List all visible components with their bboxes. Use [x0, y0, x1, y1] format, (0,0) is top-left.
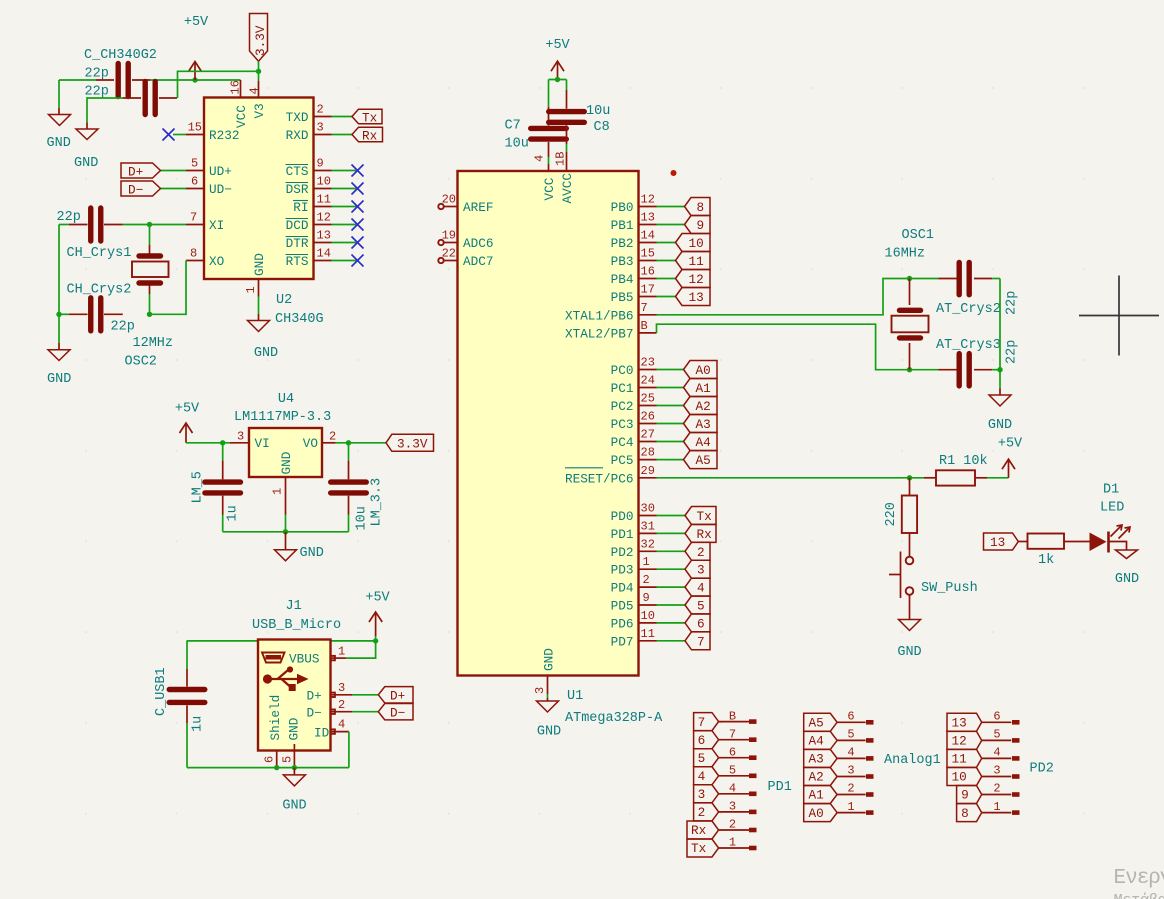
svg-text:PD1: PD1 [611, 527, 634, 542]
global label 3 PD1 [694, 785, 719, 803]
svg-text:11: 11 [689, 254, 704, 269]
svg-text:RI: RI [293, 200, 308, 215]
svg-text:Tx: Tx [362, 111, 378, 126]
power label 3.3V (vertical) [250, 14, 269, 75]
icon USB trident [263, 666, 309, 691]
junction gnd left [56, 312, 61, 317]
pin 7 XTAL1/PB6 [565, 301, 657, 324]
pin 29 RESET/PC6 [565, 464, 657, 487]
global label 4 PD4 [685, 578, 710, 596]
svg-text:4: 4 [338, 718, 345, 732]
pin 25 PC2 [611, 392, 684, 415]
diode D1 LED [1090, 532, 1127, 553]
svg-text:23: 23 [641, 356, 655, 370]
svg-text:13: 13 [990, 535, 1005, 550]
global label 4 PD1 [694, 767, 719, 785]
svg-text:C8: C8 [594, 120, 610, 135]
junction U4 gnd [283, 529, 288, 534]
pin 32 PD2 [611, 537, 685, 560]
svg-text:Tx: Tx [697, 509, 713, 524]
global label Rx PD1 [685, 524, 716, 542]
wire J1 gnd rail [187, 767, 349, 769]
svg-text:6: 6 [729, 745, 736, 759]
global label A3 [684, 415, 718, 433]
global label A0 [684, 361, 718, 379]
svg-text:5: 5 [993, 728, 1000, 742]
svg-text:9: 9 [317, 157, 324, 171]
global label 5 PD1 [694, 749, 719, 767]
capacitor LM_5 1u [205, 443, 241, 532]
pin 12 DCD nc [314, 211, 364, 231]
svg-text:PD4: PD4 [611, 581, 634, 596]
pin 7 PD1 [719, 727, 757, 742]
svg-text:DTR: DTR [286, 236, 309, 251]
pin 1 PD1 [719, 836, 757, 851]
svg-text:16: 16 [229, 80, 243, 94]
svg-text:VCC: VCC [542, 177, 557, 200]
svg-text:PC5: PC5 [611, 453, 634, 468]
svg-text:19: 19 [442, 229, 456, 243]
svg-text:PD3: PD3 [611, 563, 634, 578]
svg-text:PB4: PB4 [611, 272, 634, 287]
svg-text:VCC: VCC [234, 105, 249, 128]
svg-text:VI: VI [255, 436, 270, 451]
svg-text:2: 2 [847, 782, 854, 796]
svg-text:+5V: +5V [365, 591, 390, 606]
pin 3 VI [230, 430, 249, 444]
global label A5 [684, 451, 718, 469]
svg-text:20: 20 [442, 193, 456, 207]
svg-text:GND: GND [254, 346, 278, 361]
pin 5 GND J1 [281, 744, 295, 768]
capacitor C_USB1 1u [169, 641, 205, 768]
svg-text:PC4: PC4 [611, 435, 634, 450]
svg-text:2: 2 [338, 698, 345, 712]
pin 2 PD4 [611, 573, 685, 596]
pin name RI overline [293, 200, 309, 215]
svg-text:Analog1: Analog1 [884, 753, 941, 768]
global label 12 PD2 [947, 731, 982, 749]
svg-text:22p: 22p [1005, 291, 1020, 315]
svg-text:AT_Crys2: AT_Crys2 [936, 302, 1001, 317]
svg-text:6: 6 [697, 616, 705, 631]
svg-text:12: 12 [317, 211, 331, 225]
svg-text:14: 14 [317, 247, 331, 261]
svg-text:2: 2 [317, 103, 324, 117]
svg-text:6: 6 [993, 710, 1000, 724]
pin 3 Analog1 [837, 764, 873, 779]
svg-text:PB2: PB2 [611, 236, 634, 251]
svg-text:1: 1 [244, 286, 258, 293]
svg-text:8: 8 [697, 200, 705, 215]
capacitor CH_Crys1 22p [59, 208, 123, 241]
junction crystal bottom [907, 367, 912, 372]
svg-text:9: 9 [697, 218, 705, 233]
global label 9 PD2 [957, 786, 982, 804]
switch SW_Push [889, 552, 913, 599]
svg-text:15: 15 [641, 247, 655, 261]
svg-text:22p: 22p [85, 67, 109, 82]
svg-text:Μετάβαση στις ρυθμίσεις: Μετάβαση στις ρυθμίσεις [1114, 892, 1164, 899]
svg-text:9: 9 [961, 788, 969, 803]
pin 13 DTR nc [314, 229, 364, 249]
svg-text:28: 28 [641, 446, 655, 460]
junction gnd J1 [292, 765, 297, 770]
global label Rx PD1 [687, 821, 719, 839]
svg-text:Shield: Shield [268, 695, 283, 741]
svg-text:A0: A0 [809, 806, 824, 821]
crystal 12MHz OSC2 [132, 225, 169, 315]
svg-text:A2: A2 [696, 399, 711, 414]
pin 2 Analog1 [837, 782, 873, 797]
global label 8 [685, 198, 711, 216]
pin 6 Analog1 [837, 710, 873, 725]
svg-text:PD1: PD1 [768, 780, 792, 795]
svg-text:AREF: AREF [463, 200, 493, 215]
svg-text:+5V: +5V [545, 38, 570, 53]
svg-text:16MHz: 16MHz [885, 247, 926, 262]
junction crystal right [997, 367, 1002, 372]
resistor 220 vertical [902, 478, 917, 557]
pin 10 PD6 [611, 609, 685, 632]
IC U2 CH340G body [204, 98, 314, 280]
global label 10 [676, 234, 711, 252]
svg-text:2: 2 [729, 818, 736, 832]
svg-text:UD−: UD− [209, 182, 232, 197]
global label 5 PD5 [685, 596, 710, 614]
svg-text:11: 11 [641, 627, 655, 641]
svg-text:3: 3 [237, 430, 244, 444]
svg-text:7: 7 [190, 211, 197, 225]
svg-text:DSR: DSR [286, 182, 309, 197]
svg-text:6: 6 [262, 756, 276, 763]
global label 8 PD2 [957, 804, 982, 822]
svg-text:24: 24 [641, 374, 655, 388]
svg-text:GND: GND [252, 253, 267, 276]
svg-text:A0: A0 [696, 363, 711, 378]
pin 6 Shield [262, 751, 276, 768]
svg-text:PD2: PD2 [611, 545, 634, 560]
pin 17 PB5 [611, 283, 676, 306]
pin 8 XTAL2/PB7 [565, 319, 657, 342]
wire GND left vertical [58, 80, 60, 108]
wire cap lower left [87, 98, 123, 123]
svg-text:7: 7 [729, 727, 736, 741]
svg-text:C_CH340G2: C_CH340G2 [84, 48, 157, 63]
global label 13 (LED) [984, 533, 1019, 550]
svg-text:RXD: RXD [286, 128, 309, 143]
ground GND (U4) [275, 532, 297, 561]
svg-text:PD5: PD5 [611, 599, 634, 614]
wire VBUS net [187, 636, 376, 658]
svg-text:VBUS: VBUS [289, 652, 319, 667]
global label 13 PD2 [947, 713, 982, 731]
svg-text:7: 7 [697, 634, 705, 649]
pin 4 ID [331, 718, 349, 768]
pin 9 CTS nc [314, 157, 364, 177]
svg-text:XTAL1/PB6: XTAL1/PB6 [565, 308, 634, 323]
svg-text:GND: GND [988, 418, 1012, 433]
svg-text:U1: U1 [567, 689, 583, 704]
svg-text:AT_Crys3: AT_Crys3 [936, 338, 1001, 353]
svg-text:4: 4 [847, 746, 854, 760]
svg-text:PB3: PB3 [611, 254, 634, 269]
crosshair cursor [1079, 276, 1159, 356]
svg-text:ID: ID [314, 726, 329, 741]
svg-text:13: 13 [641, 211, 655, 225]
svg-text:PD0: PD0 [611, 509, 634, 524]
svg-text:8: 8 [190, 247, 197, 261]
svg-text:XI: XI [209, 218, 224, 233]
power +5V symbol (R1) [998, 437, 1023, 478]
capacitor LM_3.3 10u [331, 443, 367, 532]
pin 2 PD1 [719, 818, 757, 833]
svg-text:CH340G: CH340G [275, 312, 324, 327]
svg-text:1: 1 [993, 800, 1000, 814]
svg-text:2: 2 [698, 805, 706, 820]
svg-text:16: 16 [641, 265, 655, 279]
pin 23 PC0 [611, 356, 684, 379]
pin 11 RI nc [314, 193, 364, 213]
svg-text:R1 10k: R1 10k [939, 454, 988, 469]
svg-text:11: 11 [952, 752, 967, 767]
svg-text:A3: A3 [696, 417, 711, 432]
svg-text:3.3V: 3.3V [397, 437, 428, 452]
svg-text:1: 1 [643, 555, 650, 569]
wire XTAL2 net [657, 324, 939, 370]
power +5V symbol (J1) [365, 591, 390, 637]
svg-text:3: 3 [847, 764, 854, 778]
svg-text:13: 13 [689, 290, 704, 305]
global label A5 Analog1 [804, 713, 837, 731]
global label A1 [684, 379, 718, 397]
pin 14 RTS nc [314, 247, 364, 267]
svg-text:1k: 1k [1038, 553, 1054, 568]
svg-text:+5V: +5V [175, 402, 200, 417]
pin 27 PC4 [611, 428, 684, 451]
svg-text:Rx: Rx [697, 527, 713, 542]
svg-text:D1: D1 [1103, 483, 1119, 498]
svg-text:PC0: PC0 [611, 363, 634, 378]
junction XO node [147, 312, 152, 317]
pin 5 PD2 [982, 728, 1020, 743]
svg-text:CH_Crys1: CH_Crys1 [67, 246, 132, 261]
svg-text:GND: GND [47, 136, 71, 151]
ground GND (left of C_CH340G2) [49, 108, 71, 126]
junction VI node [220, 440, 225, 445]
svg-text:6: 6 [191, 175, 198, 189]
global label D+ [121, 163, 161, 180]
svg-text:CH_Crys2: CH_Crys2 [67, 283, 132, 298]
svg-text:GND: GND [282, 799, 306, 814]
svg-text:C7: C7 [505, 119, 521, 134]
svg-text:31: 31 [641, 519, 655, 533]
svg-text:2: 2 [643, 573, 650, 587]
pin 1 PD3 [611, 555, 685, 578]
capacitor AT_Crys2 22p [938, 262, 1000, 294]
svg-text:C_USB1: C_USB1 [154, 667, 169, 716]
pin name DCD overline [286, 218, 309, 233]
svg-text:ADC6: ADC6 [463, 236, 493, 251]
resistor R1 10k [924, 470, 1009, 485]
svg-text:3: 3 [697, 563, 705, 578]
svg-text:RTS: RTS [286, 254, 309, 269]
global label D- [121, 181, 161, 198]
svg-text:VO: VO [303, 436, 318, 451]
svg-text:B: B [729, 709, 736, 723]
wire XTAL1 net [657, 279, 939, 315]
pin 8 XO [150, 247, 205, 315]
svg-text:UD+: UD+ [209, 164, 232, 179]
pin 1 Analog1 [837, 800, 873, 815]
svg-text:D+: D+ [307, 689, 322, 704]
svg-text:Tx: Tx [691, 841, 707, 856]
junction VO node [346, 440, 351, 445]
svg-text:D+: D+ [390, 689, 405, 704]
junction crystal top [907, 276, 912, 281]
global label A2 [684, 397, 718, 415]
junction reset [907, 475, 912, 480]
svg-text:10u: 10u [586, 104, 610, 119]
global label A3 Analog1 [804, 749, 837, 767]
ground GND (U2) [248, 314, 270, 332]
svg-text:27: 27 [641, 428, 655, 442]
svg-text:2: 2 [697, 545, 705, 560]
svg-text:4: 4 [698, 769, 706, 784]
global label 3.3V out [386, 434, 434, 451]
global label 10 PD2 [947, 768, 982, 786]
svg-text:22p: 22p [111, 320, 135, 335]
pin 2 PD2 [982, 782, 1020, 797]
svg-text:10: 10 [689, 236, 704, 251]
svg-text:XTAL2/PB7: XTAL2/PB7 [565, 326, 634, 341]
svg-text:LM1117MP-3.3: LM1117MP-3.3 [234, 410, 331, 425]
svg-text:AVCC: AVCC [560, 173, 575, 204]
svg-text:10: 10 [641, 609, 655, 623]
svg-text:30: 30 [641, 502, 655, 516]
capacitor C7 10u [531, 80, 567, 172]
svg-text:4: 4 [729, 782, 736, 796]
svg-text:OSC2: OSC2 [125, 355, 157, 370]
svg-text:1: 1 [729, 836, 736, 850]
svg-text:J1: J1 [286, 599, 302, 614]
power +5V symbol (CH340) [189, 62, 202, 81]
svg-text:12: 12 [952, 734, 967, 749]
svg-text:22p: 22p [57, 210, 81, 225]
svg-text:3: 3 [993, 764, 1000, 778]
global label A2 Analog1 [804, 768, 837, 786]
global label 7 PD7 [685, 632, 710, 650]
pin 13 PB1 [611, 211, 685, 234]
global label A4 Analog1 [804, 731, 837, 749]
svg-text:Rx: Rx [691, 823, 707, 838]
svg-text:Rx: Rx [362, 129, 378, 144]
svg-text:10u: 10u [355, 506, 370, 530]
svg-text:13: 13 [952, 716, 967, 731]
power +5V symbol (U4) [175, 402, 200, 443]
global label D+ (J1) [378, 687, 413, 704]
pin 28 PC5 [611, 446, 684, 469]
pin 2 D- [331, 698, 379, 714]
pin 1 PD2 [982, 800, 1020, 815]
pin 31 PD1 [611, 519, 685, 542]
global label D- (J1) [378, 704, 413, 721]
svg-text:TXD: TXD [286, 110, 309, 125]
svg-text:4: 4 [993, 746, 1000, 760]
svg-text:PB5: PB5 [611, 290, 634, 305]
svg-text:D−: D− [307, 706, 322, 721]
pin 4 PD2 [982, 746, 1020, 761]
svg-text:GND: GND [1115, 572, 1139, 587]
svg-text:1: 1 [271, 488, 285, 495]
pin 16 VCC U2 [229, 80, 243, 98]
svg-text:B: B [641, 319, 648, 333]
pin name DSR overline [286, 182, 309, 197]
global label 9 [685, 216, 711, 234]
svg-text:R232: R232 [209, 128, 239, 143]
pin 3 D+ [331, 681, 379, 697]
capacitor C8 10u [549, 80, 585, 172]
svg-text:2: 2 [329, 430, 336, 444]
svg-text:32: 32 [641, 537, 655, 551]
wire U4 gnd rail [223, 531, 349, 533]
svg-text:PB0: PB0 [611, 200, 634, 215]
wire cap lower right to 3.3V net [178, 71, 259, 98]
global label A4 [684, 433, 718, 451]
pin 3 PD1 [719, 800, 757, 815]
global label Tx PD0 [685, 507, 716, 525]
svg-text:1B: 1B [554, 152, 568, 166]
svg-text:+5V: +5V [998, 437, 1023, 452]
svg-text:V3: V3 [252, 103, 267, 118]
pin 4 PD1 [719, 782, 757, 797]
wire +5V net top [59, 79, 241, 81]
capacitor AT_Crys3 22p [938, 354, 1000, 386]
wire crystal right vertical [999, 279, 1001, 389]
svg-text:D−: D− [128, 183, 143, 198]
pin 3 GND U1 [533, 676, 547, 699]
junction +5V [192, 77, 197, 82]
svg-text:LED: LED [1100, 501, 1124, 516]
pin 2 VO [322, 430, 386, 444]
svg-text:9: 9 [643, 591, 650, 605]
svg-text:6: 6 [847, 710, 854, 724]
global label 13 [676, 288, 711, 306]
pin 4 Analog1 [837, 746, 873, 761]
svg-text:3: 3 [338, 681, 345, 695]
svg-text:26: 26 [641, 410, 655, 424]
svg-text:A3: A3 [809, 752, 824, 767]
junction shield gnd [274, 765, 279, 770]
svg-text:5: 5 [191, 157, 198, 171]
pin 7 XI [123, 211, 204, 225]
svg-text:17: 17 [641, 283, 655, 297]
pin B PD1 [719, 709, 757, 724]
svg-text:GND: GND [537, 725, 561, 740]
pin name CTS overline [286, 164, 309, 179]
junction +5V U1 [549, 77, 567, 82]
svg-text:LM_5: LM_5 [191, 471, 206, 503]
junction XI node [147, 222, 152, 227]
global label Rx [352, 127, 383, 143]
svg-text:3: 3 [698, 787, 706, 802]
svg-text:11: 11 [317, 193, 331, 207]
svg-text:A1: A1 [696, 381, 711, 396]
pin 15 R232 nc [163, 121, 205, 141]
svg-text:DCD: DCD [286, 218, 309, 233]
pin 6 PD1 [719, 745, 757, 760]
wire +5V to VI [186, 442, 230, 444]
